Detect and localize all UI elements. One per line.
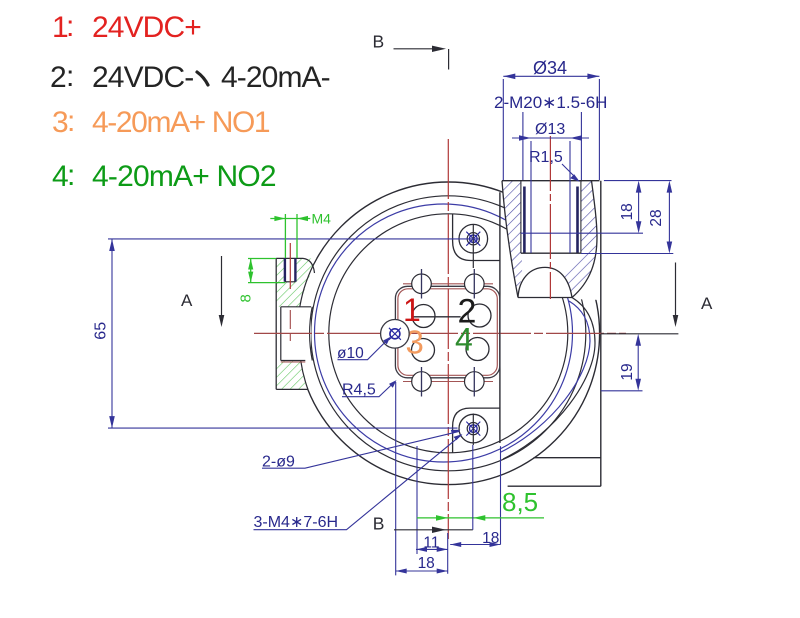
centerline M20 boss vertical — [549, 136, 551, 299]
outer circle arc through boss hatch lower — [301, 361, 308, 390]
hub inner navy circle — [390, 329, 400, 339]
boss top fillet — [303, 258, 315, 273]
section A left arrow — [221, 256, 223, 318]
dim 65 line — [111, 239, 113, 428]
arrow 28 top — [667, 181, 673, 193]
rear block bottom line — [508, 485, 601, 487]
green 8 ext lines — [248, 259, 285, 283]
boss left edge — [275, 258, 277, 389]
centerline M4 boss vertical — [289, 243, 291, 289]
svg-text:B: B — [373, 514, 385, 534]
terminal block rounded square outer — [395, 286, 499, 378]
bottom bolt hole inner — [467, 423, 479, 435]
boss hatch upper — [276, 258, 317, 306]
section B bottom line — [394, 529, 473, 531]
tick row maroon line bottom — [403, 381, 493, 383]
dim 18 right line — [638, 183, 640, 228]
section B bottom riser to bolt — [472, 445, 474, 530]
bottom bolt navy ring + cross — [470, 425, 478, 433]
tick marks verticals — [422, 269, 475, 397]
terminal block rounded square inner (maroon) — [398, 289, 497, 376]
arrow o13 right — [570, 135, 582, 141]
svg-text:18: 18 — [418, 555, 435, 572]
svg-text:19: 19 — [619, 363, 636, 380]
green dim line 8,5 — [417, 517, 544, 519]
drill dome (hole bottom) — [518, 267, 572, 297]
center hub circle — [381, 320, 410, 349]
rear block right edge — [600, 181, 602, 487]
svg-text:A: A — [701, 294, 713, 313]
notch top edge — [281, 306, 311, 308]
dim 28 ext — [581, 253, 673, 255]
section B top arrow — [394, 48, 437, 50]
chamber crescent outer — [503, 298, 595, 460]
M20 thread bore walls — [521, 181, 581, 254]
tick circle bottom-left — [412, 372, 432, 392]
svg-text:18: 18 — [482, 530, 499, 547]
M20 boss right outer curve — [572, 181, 597, 298]
green arrow 8 top — [248, 259, 253, 270]
arrow 19 bottom — [635, 379, 641, 391]
dim 18 bottom-right ext — [500, 446, 502, 544]
green dim 8 line — [250, 259, 252, 283]
main body circles — [297, 182, 600, 485]
dim 18 bottom ext lines — [396, 382, 448, 575]
leader 2-o9 — [262, 431, 460, 468]
arrow 11 left — [416, 547, 427, 552]
rear block chord left edge — [499, 192, 501, 443]
svg-text:4-20mA-: 4-20mA- — [221, 61, 330, 94]
inner bore circle — [329, 214, 568, 453]
leader o10 — [338, 339, 389, 360]
arrow 65 bottom — [109, 416, 115, 428]
arrow 18br left — [450, 542, 461, 547]
dim o13 line — [512, 137, 589, 139]
dim 11 line — [416, 548, 448, 550]
legend line 2 — [50, 60, 330, 94]
terminal hole 3 — [412, 339, 435, 362]
outer circle arc through boss hatch upper — [300, 258, 317, 306]
arrow 28 bottom — [667, 242, 673, 254]
top bolt tick vertical — [472, 225, 474, 269]
svg-text:4-20mA+ NO2: 4-20mA+ NO2 — [92, 160, 276, 193]
svg-text:Ø13: Ø13 — [535, 121, 565, 138]
M20 boss hatch right band — [564, 181, 597, 298]
green arrow 8,5 left — [436, 515, 448, 521]
terminal hole 2 — [468, 304, 491, 327]
arrow 18br right — [490, 542, 501, 547]
top bolt pad — [453, 214, 500, 261]
M20 boss hatch left band — [502, 181, 522, 298]
svg-text:18: 18 — [619, 203, 636, 220]
svg-text:2-M20∗1.5-6H: 2-M20∗1.5-6H — [494, 93, 607, 112]
notch window white — [281, 307, 311, 361]
tick row maroon line top — [403, 283, 493, 285]
leader R4,5 — [342, 382, 395, 397]
terminal hole 4 — [466, 338, 489, 361]
arrow R1,5 — [570, 174, 580, 182]
arrow 18b right — [437, 569, 448, 574]
terminal hole 1 — [412, 305, 435, 328]
bottom bolt hole outer — [459, 414, 488, 443]
boss top edge — [276, 257, 303, 259]
green arrow M4 left — [274, 216, 285, 221]
left M4 boss (section) — [276, 258, 317, 389]
svg-text:R1,5: R1,5 — [529, 149, 563, 166]
notch bottom maroon line — [281, 361, 306, 363]
section A right arrow — [675, 263, 677, 319]
svg-text:65: 65 — [93, 322, 110, 340]
leader 3-M4 — [254, 435, 462, 530]
svg-text:2: 2 — [50, 61, 67, 94]
centerline horizontal right extension (black) — [601, 333, 679, 335]
green arrow M4 right — [297, 216, 308, 221]
arrow 18b left — [396, 569, 407, 574]
dim 65 ext bottom — [108, 427, 458, 429]
dim 18 bottom line — [396, 570, 448, 572]
green dim M4 line — [270, 218, 310, 220]
green dim 8,5 — [248, 214, 544, 518]
svg-text:28: 28 — [648, 209, 665, 226]
bottom bolt pad — [453, 408, 500, 453]
arrow o13 left — [519, 135, 531, 141]
tap hole white — [285, 258, 296, 281]
svg-text:ø10: ø10 — [337, 345, 364, 362]
boss hatch lower — [276, 361, 308, 390]
arrow 19 top — [635, 334, 641, 346]
svg-text::: : — [66, 60, 74, 93]
arrow o34 right — [587, 74, 599, 80]
svg-text:8,5: 8,5 — [502, 487, 538, 517]
M20 boss left outer curve — [502, 181, 518, 298]
svg-text:3-M4∗7-6H: 3-M4∗7-6H — [254, 514, 339, 531]
dim arrows (navy) — [109, 74, 672, 574]
M4 tap hole bottom — [285, 281, 296, 283]
top bolt hole inner — [467, 233, 479, 245]
green M4 ext verticals — [285, 214, 297, 258]
boss white fill — [276, 258, 317, 389]
svg-text:24VDC+: 24VDC+ — [92, 11, 201, 44]
svg-text::: : — [66, 10, 74, 43]
centerline M4 side-hole vertical (in notch) — [289, 310, 291, 341]
svg-text::: : — [67, 159, 75, 192]
dome chord — [518, 297, 572, 299]
green arrow 8 bottom — [248, 272, 253, 283]
arrow 11 right — [437, 547, 448, 552]
legend line 1 — [52, 10, 201, 44]
svg-text:8: 8 — [238, 294, 255, 302]
M20 boss top face — [502, 180, 600, 182]
dim 19 ext bottom — [601, 390, 643, 392]
hub navy cross — [389, 328, 401, 340]
outer circle — [297, 182, 600, 485]
legend line 3 — [52, 105, 270, 139]
svg-text::: : — [67, 105, 75, 138]
svg-text:11: 11 — [423, 535, 439, 552]
dim 11 ext left — [416, 446, 418, 554]
navy circle — [315, 204, 573, 462]
boss bottom edge — [276, 388, 308, 390]
top bolt navy ring + cross — [470, 235, 478, 243]
tick circle bottom-right — [465, 372, 485, 392]
arrow o34 left — [503, 74, 515, 80]
label 2 pointer line — [412, 316, 461, 318]
M20 bore bottom — [521, 252, 581, 254]
svg-text:B: B — [373, 32, 385, 52]
M20 thread minor walls (thick) — [524, 187, 577, 254]
dim o13 ext lines — [531, 141, 570, 253]
arrow 18r bottom — [636, 221, 642, 233]
dim o34 line — [503, 75, 599, 77]
boss white mask: left band lower part — [504, 233, 521, 298]
bottom bolt tick vertical — [472, 414, 474, 446]
dim 28 line — [668, 183, 670, 250]
svg-text:Ø34: Ø34 — [533, 58, 567, 78]
svg-text:M4: M4 — [312, 211, 332, 227]
dim 65 ext top — [108, 238, 479, 240]
svg-text:24VDC-: 24VDC- — [92, 61, 193, 94]
svg-text:2-ø9: 2-ø9 — [262, 454, 295, 471]
rear block step line — [534, 457, 601, 459]
dim o34 ext lines — [503, 79, 599, 180]
dim 18 bottom-right line — [450, 544, 500, 546]
leader R1,5 — [562, 164, 578, 180]
boss white mask: bore + pilot hole + dome — [518, 181, 581, 298]
svg-text:R4,5: R4,5 — [342, 382, 376, 399]
tick circle top-right — [465, 274, 485, 294]
mid circle — [311, 196, 586, 471]
notch left edge — [280, 307, 282, 361]
dim M20 ext lines — [523, 112, 582, 180]
arrow 65 top — [109, 239, 115, 251]
dim 18 right ext — [521, 181, 672, 234]
boss white mask: right sliver — [570, 180, 602, 300]
chamber crescent inner (navy) — [500, 301, 590, 453]
tick circle top-left — [412, 274, 432, 294]
arrow 18r top — [636, 181, 642, 193]
svg-text:4: 4 — [455, 322, 473, 358]
green arrow 8,5 right — [473, 515, 485, 521]
legend line 4 — [52, 159, 276, 193]
centerline main vertical — [447, 139, 449, 539]
top bolt hole outer — [459, 224, 488, 253]
M4 tap hole walls (thick navy) — [285, 258, 296, 281]
dim 19 line — [637, 339, 639, 385]
notch bottom edge — [281, 360, 306, 362]
svg-text:4-20mA+ NO1: 4-20mA+ NO1 — [92, 106, 270, 139]
mid circle arc at notch edge — [310, 307, 313, 361]
centerline main horizontal — [254, 332, 626, 334]
svg-text:A: A — [181, 291, 193, 310]
